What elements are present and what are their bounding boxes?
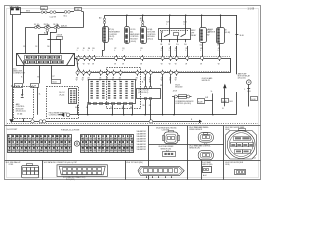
DSC HU/CM round connector drawing	[226, 129, 257, 160]
wire motor to ground ref	[244, 85, 250, 107]
wire switch SW3 drop to DLC	[47, 29, 57, 54]
svg-text:L: L	[161, 50, 162, 52]
PJB pin ground drops	[78, 105, 133, 116]
svg-text:W: W	[122, 64, 124, 66]
cell header W-01 side wall	[6, 161, 21, 166]
svg-text:W: W	[114, 64, 116, 66]
DSC HU/CM box	[137, 76, 161, 100]
fuse F3	[140, 15, 144, 27]
svg-text:L: L	[169, 50, 170, 52]
svg-text:L: L	[175, 50, 176, 52]
wire DLC pin drop 1	[21, 66, 24, 84]
mid row separator col B	[188, 144, 224, 146]
svg-text:W: W	[175, 64, 177, 66]
svg-text:SENSOR (LH): SENSOR (LH)	[189, 148, 200, 150]
svg-text:1L: 1L	[39, 93, 41, 95]
svg-text:10A METER: 10A METER	[137, 132, 147, 135]
PJB pin labels	[75, 106, 133, 109]
connector U2	[125, 15, 141, 44]
svg-text:10A METER: 10A METER	[137, 138, 147, 141]
passenger junction box PJB	[89, 80, 136, 104]
switch SW3	[53, 23, 60, 28]
pump motor M symbol	[247, 80, 252, 85]
svg-text:COWL: COWL	[9, 164, 14, 166]
cell header rear sensor LH	[189, 145, 210, 150]
svg-text:10A METER: 10A METER	[137, 135, 147, 138]
svg-text:W: W	[218, 64, 220, 66]
svg-text:M: M	[248, 82, 250, 84]
bus drop 3T label block	[171, 76, 184, 89]
fuse table left block border	[8, 135, 72, 153]
svg-text:L: L	[218, 50, 219, 52]
connector U4	[200, 15, 212, 57]
svg-text:HU/CM 4X: HU/CM 4X	[202, 80, 211, 82]
bottom table vertical dividers	[149, 126, 224, 180]
bottom row dividers	[43, 160, 202, 179]
reference box G-10	[52, 80, 61, 84]
svg-text:C-02 W: C-02 W	[50, 16, 57, 18]
svg-text:MODULE: MODULE	[175, 86, 183, 88]
svg-text:C-06 SIDE: C-06 SIDE	[162, 130, 170, 132]
switch SW1	[34, 24, 40, 28]
svg-text:W: W	[161, 64, 163, 66]
svg-text:10A METER: 10A METER	[137, 140, 147, 143]
off page arrow to 09-02-50	[202, 77, 227, 106]
svg-text:L: L	[200, 50, 201, 52]
svg-text:10A METER: 10A METER	[137, 143, 147, 146]
connector in line C-05	[64, 11, 71, 18]
relay K1 box	[159, 15, 191, 40]
cornering lamp sensor branch	[172, 90, 194, 115]
diode D1 branch	[47, 35, 63, 54]
svg-text:(09-14): (09-14)	[147, 39, 153, 41]
svg-text:L: L	[83, 50, 84, 52]
cell header DSC HU/CM big connector	[225, 126, 245, 131]
DLC pins top row	[25, 56, 62, 60]
reference box G-11	[222, 99, 234, 110]
reference box G-08 left	[11, 84, 23, 88]
reference box G-09	[31, 84, 39, 88]
svg-text:1B 1A: 1B 1A	[53, 23, 59, 26]
svg-text:L: L	[88, 50, 89, 52]
svg-text:DIODE: DIODE	[57, 35, 63, 37]
wire ABS box to ground bus	[23, 118, 25, 121]
svg-text:DLC-2 (F-22): DLC-2 (F-22)	[66, 179, 75, 181]
svg-text:(09-18): (09-18)	[225, 32, 231, 34]
svg-text:X-01 POINT: X-01 POINT	[7, 129, 19, 131]
CAN bus S-curve from DLC	[75, 58, 83, 73]
ground bus lower	[9, 119, 202, 123]
svg-text:W-04 TOP DECK (RH): W-04 TOP DECK (RH)	[126, 162, 143, 164]
svg-text:SIDE): SIDE)	[225, 164, 230, 166]
joint box vertical text	[69, 89, 77, 104]
svg-text:W-L: W-L	[64, 16, 67, 18]
svg-text:W: W	[88, 64, 90, 66]
DSC ground drops	[142, 100, 151, 122]
corner sensor dashed box	[47, 87, 79, 119]
connector in line C-02	[50, 11, 57, 18]
fuse table grid left block	[8, 135, 72, 153]
ignition feed wire	[105, 15, 237, 17]
fuse table right block border	[81, 135, 134, 153]
svg-text:09-02 DSC HU/CM (SUB: 09-02 DSC HU/CM (SUB	[225, 162, 243, 164]
wire battery to fuse	[20, 10, 41, 12]
bottom row separator	[5, 160, 261, 162]
svg-text:(09-40): (09-40)	[130, 41, 136, 43]
svg-text:4X (B): 4X (B)	[17, 114, 22, 116]
relay pin drops to bus	[160, 39, 187, 56]
PJB bottom pins	[88, 103, 133, 105]
svg-text:W B: W B	[26, 10, 30, 12]
reference box G-08 right	[251, 97, 258, 101]
battery B+ junction box	[10, 5, 21, 14]
wire corner down to switch row	[25, 12, 83, 28]
W-04 long connector drawing	[138, 166, 184, 178]
wire DLC pin drop 3	[52, 66, 56, 80]
data link connector DLC	[17, 53, 75, 65]
svg-text:1D 1C: 1D 1C	[34, 24, 40, 26]
cell header DSC sub connector	[225, 162, 243, 166]
svg-text:1L: 1L	[211, 91, 213, 93]
connector U1	[103, 27, 120, 43]
svg-text:4X 09: 4X 09	[173, 90, 177, 92]
fuse table grid right block	[81, 135, 134, 153]
connector U3	[141, 27, 156, 44]
instrument cluster dashed box	[107, 68, 141, 109]
svg-text:2B 2A: 2B 2A	[44, 23, 50, 26]
EBCM connector drawing	[163, 131, 180, 144]
wire right column feed	[235, 15, 243, 74]
DSC sub connector box	[235, 170, 246, 175]
svg-text:SPEED SENSOR: SPEED SENSOR	[189, 129, 203, 131]
lower bus pin labels	[76, 77, 178, 81]
reference box C-08	[70, 8, 81, 12]
wire 1L to ground bus	[38, 87, 41, 115]
svg-text:SENSOR (RH): SENSOR (RH)	[202, 164, 213, 166]
svg-text:L: L	[122, 50, 123, 52]
W-02 DLC 16pin connector drawing	[57, 165, 107, 181]
svg-text:W: W	[149, 82, 151, 84]
wire switch SW2 drop to DLC	[35, 32, 47, 54]
grid inline connector circle	[74, 141, 79, 146]
switch SW2 with branch	[44, 23, 51, 34]
svg-text:(09-02-50): (09-02-50)	[238, 78, 246, 80]
CAN bus lower line	[84, 72, 230, 73]
svg-text:SENSOR: SENSOR	[208, 32, 216, 34]
wire DLC pin drop 2	[37, 66, 40, 84]
svg-text:W: W	[77, 64, 79, 66]
relay K1 label	[191, 30, 197, 37]
svg-text:1-1 09: 1-1 09	[248, 8, 255, 10]
fuse F1 15A	[41, 7, 48, 14]
page border frame	[5, 6, 261, 180]
svg-text:10A METER: 10A METER	[137, 130, 147, 133]
svg-text:W: W	[140, 64, 142, 66]
rear sensor RH box	[203, 167, 212, 177]
svg-text:SW: SW	[207, 34, 210, 36]
svg-text:SENSOR C/M: SENSOR C/M	[161, 148, 172, 150]
bus drop 3S to ground	[160, 76, 163, 116]
CAN bus loop corner	[230, 58, 232, 73]
svg-text:W: W	[200, 64, 202, 66]
corner sensor connector box	[163, 149, 176, 156]
battery ground drop wire	[12, 15, 14, 120]
svg-text:RELAY: RELAY	[191, 34, 197, 37]
svg-text:(09-02-50-2): (09-02-50-2)	[138, 92, 148, 94]
svg-text:L: L	[92, 50, 93, 52]
svg-text:W: W	[92, 64, 94, 66]
DLC label	[13, 68, 26, 74]
svg-text:W: W	[185, 64, 187, 66]
fuse F2	[99, 15, 106, 26]
schematic bottom separator	[5, 125, 261, 127]
ABS control module dashed box	[14, 87, 34, 119]
wire	[56, 12, 64, 14]
svg-text:▶B-01: ▶B-01	[62, 25, 69, 28]
reference box G-12 with stub	[198, 97, 213, 103]
svg-text:B-16: B-16	[240, 35, 244, 37]
wire switch row left drop to DLC	[23, 27, 26, 53]
svg-text:W: W	[169, 64, 171, 66]
svg-text:L: L	[140, 50, 141, 52]
cell header rear sensor RH	[202, 161, 213, 166]
svg-text:L: L	[185, 50, 186, 52]
connector U5	[208, 15, 230, 57]
svg-text:L: L	[77, 50, 78, 52]
svg-text:B (G): B (G)	[109, 39, 113, 41]
cell header corner sensor	[159, 145, 175, 150]
svg-text:09-02 EBCM (DSC HU/CM): 09-02 EBCM (DSC HU/CM)	[156, 127, 177, 129]
svg-text:CONTROL (09-18-5): CONTROL (09-18-5)	[175, 103, 191, 105]
ground bus lower inline connectors	[23, 120, 153, 123]
svg-text:C-01: C-01	[253, 158, 257, 160]
ground bus upper right drops	[211, 91, 252, 116]
rear sensor LH connector drawing	[198, 151, 213, 160]
rear ABS sensor connector drawing	[198, 133, 213, 146]
upper bus pin labels	[77, 48, 221, 66]
wire U1 to bus	[102, 43, 104, 57]
W-01 connector drawing 8pin	[22, 164, 39, 178]
upper bus inline connectors	[77, 55, 221, 61]
svg-text:10A METER: 10A METER	[137, 145, 147, 148]
cell header rear ABS sensor	[189, 126, 209, 131]
CAN bus upper line	[74, 57, 230, 59]
svg-text:10A METER: 10A METER	[137, 148, 147, 151]
ground bus upper	[59, 113, 237, 117]
mid row separator col A	[149, 144, 188, 146]
ABS pump motor relay label	[238, 73, 251, 80]
svg-text:PJB (09-21-1) FUSE: PJB (09-21-1) FUSE	[61, 130, 80, 132]
svg-text:(F-22): (F-22)	[59, 94, 64, 96]
wire	[47, 12, 50, 14]
relay K1 internal contacts	[161, 29, 186, 39]
DLC pins bottom row	[24, 61, 64, 64]
svg-text:3: 3	[183, 24, 184, 26]
cell header EBCM DSC HU CM	[156, 127, 177, 131]
svg-text:BATT 30A: BATT 30A	[10, 5, 20, 8]
harness dotted separator	[7, 123, 258, 125]
svg-text:W: W	[83, 64, 85, 66]
svg-text:L: L	[114, 50, 115, 52]
svg-text:1: 1	[166, 24, 167, 26]
svg-text:(09-02-50-1): (09-02-50-1)	[16, 111, 26, 113]
lower bus inline connectors	[76, 70, 178, 76]
fuse legend column	[137, 130, 147, 151]
svg-text:1: 1	[244, 89, 245, 91]
